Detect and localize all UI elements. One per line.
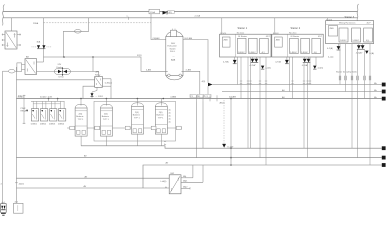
svg-text:1-800C: 1-800C: [249, 52, 256, 54]
svg-text:4(-): 4(-): [314, 52, 318, 54]
svg-text:2(6): 2(6): [104, 113, 108, 115]
svg-text:D4804: D4804: [58, 124, 65, 126]
contactor window 3 module 3: [364, 28, 373, 42]
wire module 3 drop d: [357, 49, 359, 157]
wire relay coil stubs: [33, 101, 64, 108]
contactor window 1 module 3: [339, 28, 348, 42]
starter module 3 housing: [326, 21, 374, 44]
connector pin pair P35: [364, 76, 366, 80]
wire relay feed rail: [31, 100, 65, 102]
node battery pack text column: [169, 110, 172, 124]
wire module 3 drop f: [369, 44, 371, 165]
battery B4: [155, 103, 167, 134]
svg-text:TYP 1: TYP 1: [103, 119, 110, 121]
diode cluster D11 module 1: [223, 57, 237, 64]
svg-text:4(0)/1: 4(0)/1: [19, 183, 25, 185]
connector JMB module 1: [222, 37, 230, 47]
svg-text:4-70A: 4-70A: [275, 61, 281, 64]
svg-text:4(0): 4(0): [18, 95, 22, 97]
wire bus B tap to alternator: [11, 18, 13, 31]
svg-text:Batterie: Batterie: [133, 114, 141, 117]
contactor window 3 module 2: [312, 38, 321, 54]
svg-text:4(1): 4(1): [168, 12, 172, 14]
svg-text:1-800C: 1-800C: [340, 40, 347, 42]
battery B1: [75, 104, 87, 136]
svg-text:4-2(A)*: 4-2(A)*: [356, 51, 363, 54]
node bus terminator R5: [382, 156, 386, 160]
connector C12 on link rail: [95, 126, 100, 130]
svg-text:4-2(A): 4-2(A): [327, 47, 333, 50]
svg-text:Batterie: Batterie: [76, 115, 84, 118]
svg-text:TYP 1: TYP 1: [158, 118, 165, 120]
wire module 1 drop c: [247, 57, 249, 148]
starter module 2 housing: [272, 32, 323, 57]
svg-text:← D391: ← D391: [95, 96, 103, 98]
bus break symbol right: [357, 4, 359, 23]
relay K1: [31, 109, 38, 121]
wire AP1 lower-left pin: [83, 86, 95, 98]
diode D2 at bus R2 start: [208, 83, 213, 86]
fuse F1 150A on bus A: [149, 9, 160, 14]
ground symbol under unit A: [1, 214, 6, 216]
wire module 1 drop d: [250, 57, 252, 148]
wire drop connector to bus R4: [202, 101, 204, 148]
pin stubs left of alternator: [2, 34, 5, 47]
svg-text:Batterie: Batterie: [157, 114, 165, 117]
relay K3: [50, 109, 57, 121]
converter B02 box: [169, 173, 181, 194]
svg-text:2(6): 2(6): [135, 112, 139, 114]
wire module 2 drop d: [307, 63, 309, 158]
wire switch lower-right pin: [182, 71, 200, 98]
node PWR RELAY label: [21, 108, 28, 113]
svg-text:D-Block: D-Block: [105, 83, 113, 85]
wire taps main line to relay rail: [49, 99, 58, 102]
wire bus B tap through fuse F3: [81, 18, 89, 32]
svg-text:Starter for safety fields: Starter for safety fields: [336, 71, 357, 74]
connector pin pair P32: [345, 76, 347, 80]
svg-text:150A: 150A: [150, 11, 155, 14]
wire battery top stubs: [81, 99, 161, 106]
wire D750 output: [70, 72, 98, 77]
rectifier AB box: [25, 56, 37, 75]
svg-text:4A): 4A): [183, 175, 187, 178]
wire module 1 drop e: [259, 57, 261, 158]
diode cluster D21 module 2: [275, 57, 289, 64]
connector C13 on link rail: [125, 126, 130, 130]
junction dots on bus T: [63, 56, 94, 58]
wire bus R6: [143, 165, 382, 188]
wire bus B feed to module 1: [221, 18, 223, 34]
svg-text:TYP 1: TYP 1: [78, 119, 85, 121]
wire module 2 drop a: [289, 57, 291, 92]
svg-text:4(-): 4(-): [366, 40, 370, 42]
node bus terminator R1: [382, 83, 386, 87]
svg-text:Wiring Harnesses: Wiring Harnesses: [339, 21, 355, 24]
contactor window 2 module 1: [249, 38, 258, 54]
node relay designators D4801-D4804: [31, 124, 65, 126]
pin stubs right of alternator: [17, 34, 21, 47]
connector C14 on link rail: [151, 126, 156, 130]
connector C15 on link rail: [176, 126, 181, 130]
suppressor unit A with diodes: [1, 202, 7, 213]
alternator G1 box: [5, 31, 17, 49]
wire module 2 drop e: [309, 57, 311, 85]
diode D24V on bus R4: [222, 144, 234, 149]
wire B02 right pin 1: [181, 165, 193, 178]
svg-text:TYP 1: TYP 1: [134, 118, 141, 120]
svg-text:Starter 1: Starter 1: [238, 27, 248, 30]
svg-text:2(6): 2(6): [159, 112, 163, 114]
wire AB box to bus T: [37, 61, 44, 63]
exhauster switch S1 body: [166, 29, 183, 80]
svg-text:L-A(0): L-A(0): [161, 180, 167, 183]
svg-text:Exhauster: Exhauster: [168, 45, 178, 48]
diode assembly D750 24V: [55, 64, 71, 78]
wire feed rail to converter B02 upper: [16, 177, 169, 179]
svg-text:23BA: 23BA: [33, 22, 39, 25]
wire module 3 drop c: [351, 44, 353, 149]
svg-text:AV.: AV.: [282, 89, 285, 92]
relay K4: [58, 109, 65, 121]
svg-text:F2(1): F2(1): [137, 55, 142, 57]
wire left drop to ground unit: [2, 71, 4, 204]
wire feed rail to relay AP1: [16, 79, 94, 81]
starter module 1 housing: [220, 32, 271, 57]
wire bus R5: [16, 157, 381, 159]
wire module 3 drop e: [364, 49, 366, 98]
wire module 1 drop a: [237, 57, 239, 85]
wire module 3 drop a: [339, 44, 341, 85]
svg-text:4(0)AM: 4(0)AM: [229, 95, 236, 98]
svg-text:4(-): 4(-): [262, 52, 266, 54]
node 4(0)/1 tap label: [15, 183, 25, 186]
svg-text:D4803: D4803: [49, 124, 56, 126]
wire dashed option line: [44, 22, 152, 24]
diode cluster D12 module 1: [250, 57, 259, 67]
svg-text:J4 Starter: J4 Starter: [290, 35, 299, 38]
svg-text:Starter 2: Starter 2: [291, 27, 301, 30]
wire bus R2: [222, 91, 382, 93]
wire fuse feed to switch: [151, 14, 166, 40]
diode D391 under AP1: [91, 87, 104, 98]
wire dashed drop to diode D24V: [223, 100, 225, 144]
diode cluster D31 module 3: [327, 44, 340, 50]
svg-text:AAA: AAA: [171, 58, 176, 61]
wire B02 right pin 3: [181, 186, 190, 190]
wire switch lower-left pin: [141, 57, 168, 71]
fuse F2 oval on battery feed: [3, 69, 17, 73]
junction dots on main line: [48, 98, 232, 100]
svg-text:4-0(5): 4-0(5): [318, 68, 324, 70]
svg-text:D750: D750: [59, 77, 65, 79]
wire relay feed rail lower: [33, 103, 60, 105]
connector row on main line: [190, 94, 217, 101]
wire battery link rail: [67, 127, 182, 129]
contactor window 1 module 1: [238, 38, 247, 54]
svg-text:No Jxxx: No Jxxx: [237, 32, 245, 34]
relay AP1 box: [95, 71, 103, 88]
svg-text:4-AM: 4-AM: [146, 69, 151, 72]
connector pin pair P34: [357, 76, 359, 80]
wire module 2 drop f: [315, 57, 317, 65]
wire drop connector to bus R5: [196, 101, 198, 157]
wire AP1 right pins to riser: [102, 79, 111, 99]
wire bus B (second supply rail): [3, 17, 358, 19]
wire drop main line to bus R6: [230, 99, 232, 166]
contactor window 2 module 3: [352, 28, 361, 42]
diode D13 module 1: [261, 66, 271, 70]
wire module 2 drop c: [303, 63, 305, 148]
wire module 1 drop f: [265, 57, 267, 165]
svg-text:1-800C: 1-800C: [238, 52, 245, 54]
node a tick on bus B: [127, 15, 129, 19]
wire bus R4: [81, 146, 382, 148]
diode cluster D32 module 3: [356, 44, 365, 55]
wire bus T: [44, 56, 142, 58]
svg-text:D4801: D4801: [31, 124, 38, 126]
diode D5 at relay block input: [26, 110, 28, 112]
svg-text:JMB: JMB: [223, 39, 228, 41]
wire bus B feed to module 3: [326, 18, 328, 21]
wire riser to bus T: [92, 57, 94, 72]
svg-text:BLD AM: BLD AM: [185, 37, 193, 40]
diode D1 on bus A: [163, 11, 175, 15]
junction box B at bottom: [14, 201, 24, 213]
svg-text:Switch: Switch: [170, 47, 177, 50]
node 4(0) bracket left of relay block: [23, 95, 26, 124]
contactor window 2 module 2: [301, 38, 310, 54]
svg-text:No Jxxx: No Jxxx: [289, 32, 297, 34]
wire bus A (top supply rail): [3, 10, 358, 12]
svg-text:JMB: JMB: [276, 39, 281, 41]
relay K2: [40, 109, 47, 121]
svg-text:4-70A*: 4-70A*: [302, 64, 309, 67]
wire bus B feed to module 2: [274, 18, 276, 34]
svg-text:1-800C: 1-800C: [290, 52, 297, 54]
wire main distribution line: [16, 98, 381, 100]
bus break symbol left: [3, 5, 5, 26]
connector pin pair P31: [339, 76, 341, 80]
svg-text:D4802: D4802: [40, 124, 47, 126]
svg-text:Batterie: Batterie: [102, 115, 110, 118]
node bus terminator R4: [382, 146, 386, 150]
svg-text:JMB: JMB: [329, 28, 334, 30]
connector tick marks on starter drop wires: [240, 81, 311, 83]
node bus terminator main line: [382, 97, 386, 101]
connector X1 at AB left: [17, 63, 25, 72]
svg-text:2(6): 2(6): [79, 113, 83, 115]
node bus terminator R2: [382, 90, 386, 94]
svg-text:30A: 30A: [37, 41, 41, 44]
wire B02 right pin 2: [181, 165, 203, 183]
svg-text:Starter 3: Starter 3: [345, 16, 355, 19]
connector pin pair P33: [351, 76, 353, 80]
fuse F3 oval: [74, 30, 81, 34]
svg-text:4x4(0) / 4x35: 4x4(0) / 4x35: [40, 96, 53, 98]
svg-text:1-800C: 1-800C: [301, 52, 308, 54]
diode pair D30 with 30A label: [32, 18, 52, 62]
svg-text:4-70A: 4-70A: [223, 61, 229, 64]
diode D33 module 3: [365, 51, 374, 55]
wire module 3 drop b: [345, 44, 347, 92]
svg-text:1-800C: 1-800C: [352, 40, 359, 42]
wire fuse F3 to bus T: [63, 31, 74, 57]
wire bus R1: [213, 84, 382, 86]
diode D23 module 2: [313, 66, 323, 70]
wire AB to diode D750: [37, 71, 55, 73]
wire battery bottom stubs to bus R4: [81, 134, 161, 146]
svg-text:500 L: 500 L: [170, 51, 176, 53]
svg-text:2-15A: 2-15A: [195, 15, 201, 18]
svg-text:4-x(x): 4-x(x): [328, 57, 334, 59]
wire switch right pin: [183, 40, 208, 83]
wire left bus drop to box B: [15, 67, 17, 203]
svg-text:AV.: AV.: [282, 96, 285, 99]
connector JMB module 2: [275, 37, 283, 47]
node 4A labels at bus right ends: [374, 82, 377, 99]
contactor window 1 module 2: [290, 38, 299, 54]
battery B2: [101, 104, 113, 136]
connector JMB module 3: [328, 26, 337, 36]
svg-text:546/: 546/: [171, 43, 175, 45]
connector pin pair P36: [369, 76, 371, 80]
svg-text:(30)AM: (30)AM: [153, 37, 160, 40]
svg-text:4+AM: 4+AM: [186, 69, 192, 72]
battery B3: [132, 103, 144, 134]
svg-text:4(6): 4(6): [202, 81, 206, 83]
svg-text:(2)AM: (2)AM: [171, 95, 177, 98]
connector C11 on link rail: [70, 126, 75, 130]
battery pack enclosure: [94, 101, 176, 141]
wire feed rail to converter B02 lower: [16, 187, 169, 189]
node labels above R4 right of cylinders: [164, 141, 167, 146]
svg-text:J4 Starter: J4 Starter: [238, 35, 247, 38]
contactor window 3 module 1: [260, 38, 269, 54]
node bus terminator R6: [382, 163, 386, 167]
junction dots lower buses: [230, 147, 232, 165]
diode cluster D22 module 2: [302, 57, 311, 67]
wire module 1 drop b: [240, 57, 242, 99]
wire module 2 drop b: [292, 57, 294, 99]
